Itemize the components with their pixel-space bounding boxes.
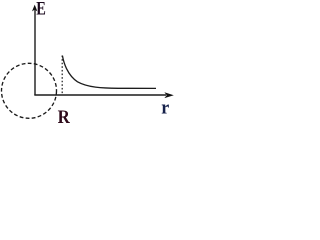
E(r) field curve bbox=[62, 56, 156, 89]
charged sphere (dashed circle) bbox=[2, 63, 57, 118]
E axis (vertical) bbox=[34, 8, 36, 95]
svg-text:r: r bbox=[161, 98, 170, 119]
svg-text:E: E bbox=[36, 0, 46, 20]
E axis arrowhead bbox=[32, 5, 37, 12]
r axis arrowhead bbox=[164, 92, 173, 98]
r axis (horizontal) bbox=[34, 94, 166, 96]
svg-text:R: R bbox=[58, 107, 70, 128]
dotted line at r = R bbox=[61, 56, 63, 94]
